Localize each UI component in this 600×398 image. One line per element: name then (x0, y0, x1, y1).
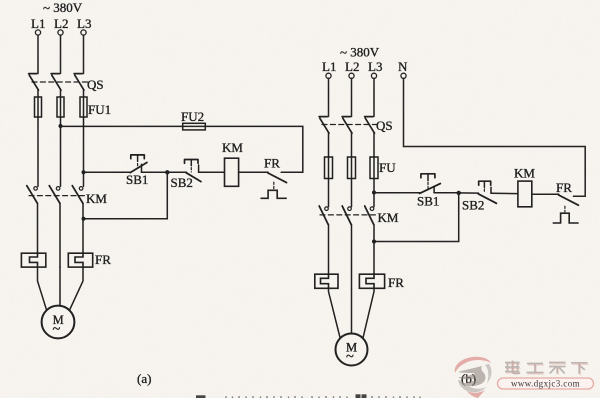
pushbutton SB1 start (b) (420, 174, 441, 194)
terminal L2 (b) (349, 73, 354, 78)
switch QS pole 2 (a) (51, 74, 61, 91)
wire L2 terminal to QS (b) (351, 78, 353, 116)
thermal relay FR heater pole 3 (b) (359, 274, 384, 288)
fuse FU pole 2 (b) (348, 157, 356, 179)
node SB1-SB2 junction (a) (165, 170, 169, 174)
pushbutton SB2 stop (b) (478, 181, 496, 203)
wire L2 terminal to QS (a) (60, 35, 62, 73)
wire KM contact to FR heater pole 1 (a) (37, 203, 39, 253)
thermal relay FR contact (a) (261, 172, 303, 198)
thermal relay FR heater pole 1 (a) (21, 253, 45, 267)
terminal L3 (a) (81, 30, 86, 35)
wire self-lock branch (b) (374, 193, 459, 242)
QS linkage dashed line (a) (32, 81, 88, 83)
node control tap on L3 (a) (82, 170, 86, 174)
wire FR heater to motor pole 1 (b) (329, 288, 341, 338)
fuse FU1 pole 3 (a) (80, 97, 87, 117)
wire KM contact to FR heater pole 2 (a) (59, 203, 61, 267)
wire QS to FU pole 3 (b) (373, 133, 375, 157)
node control tap on L2 (a) (59, 124, 63, 128)
wire L3 tap to SB1 (b) (374, 192, 420, 194)
wire FR heater to motor pole 2 (b) (351, 288, 353, 333)
contactor KM main contact pole 3 (b) (365, 206, 374, 225)
wire KM coil to FR contact (b) (532, 193, 559, 195)
contactor coil KM (b) (518, 181, 532, 207)
wire KM contact to FR heater pole 2 (b) (351, 225, 353, 289)
pushbutton SB2 stop (a) (185, 160, 202, 182)
terminal L2 (a) (58, 30, 63, 35)
switch QS pole 1 (a) (29, 74, 39, 91)
fuse FU2 (a) (183, 123, 206, 130)
switch QS pole 3 (b) (365, 117, 375, 134)
contactor KM main contact pole 1 (b) (319, 206, 328, 225)
terminal L3 (b) (371, 73, 376, 78)
wire QS to FU pole 1 (b) (328, 133, 330, 157)
wire L2 FU1 to KM contact (a) (60, 117, 62, 186)
pushbutton SB1 start (a) (130, 155, 147, 173)
watermark logo swirl (455, 357, 492, 398)
wire L1 FU1 to KM contact (a) (37, 117, 39, 186)
fuse FU pole 1 (b) (325, 157, 333, 179)
wire FU2 to right corner (a) (205, 126, 302, 172)
QS linkage dashed line (b) (322, 124, 378, 126)
watermark text 电工天下 (505, 361, 588, 374)
contactor KM main contact pole 1 (a) (27, 186, 38, 204)
motor M (b) (336, 334, 368, 366)
motor M (a) (42, 306, 75, 339)
switch QS pole 1 (b) (319, 117, 329, 134)
contactor coil KM (a) (225, 158, 239, 186)
node self-lock on L3 (a) (82, 217, 86, 221)
KM linkage dashed line (a) (29, 195, 87, 197)
terminal L1 (a) (35, 30, 40, 35)
wire L3 terminal to QS (a) (83, 35, 85, 73)
wire QS to FU1 pole 2 (a) (60, 90, 62, 97)
wire SB2 to KM coil (b) (491, 192, 518, 194)
wire L3 FU to KM contact (b) (373, 179, 375, 207)
wire KM contact to FR heater pole 3 (b) (373, 225, 375, 275)
wire N terminal down and across (b) (404, 78, 586, 196)
contactor KM main contact pole 2 (a) (49, 186, 60, 204)
thermal relay FR heater pole 1 (b) (315, 274, 338, 288)
thermal relay FR heater pole 3 (a) (68, 253, 92, 267)
wire FR heater to motor pole 2 (a) (59, 267, 61, 306)
fuse FU1 pole 2 (a) (57, 97, 64, 117)
switch QS pole 2 (b) (342, 117, 352, 134)
fuse FU pole 3 (b) (370, 157, 378, 179)
wire FR heater to motor pole 1 (a) (38, 267, 47, 310)
wire KM contact to FR heater pole 3 (a) (82, 203, 84, 253)
wire L1 FU to KM contact (b) (328, 179, 330, 207)
wire SB2 to KM coil (a) (199, 171, 225, 173)
wire self-lock branch (a) (84, 172, 168, 218)
wire QS to FU1 pole 1 (a) (37, 90, 39, 97)
wire L1 terminal to QS (a) (37, 35, 39, 73)
caption fragment at bottom edge (clipped text tops) (196, 394, 367, 398)
wire KM coil to FR contact (a) (239, 171, 269, 173)
wire SB1 to node (b) (434, 192, 459, 194)
wire KM contact to FR heater pole 1 (b) (328, 225, 330, 275)
contactor KM main contact pole 2 (b) (342, 206, 351, 225)
node self-lock on L3 (b) (372, 240, 376, 244)
wire L3 FU1 to KM contact (a) (83, 117, 85, 186)
wire QS to FU1 pole 3 (a) (83, 90, 85, 97)
thermal relay FR contact (b) (553, 195, 585, 223)
wire SB1 to node (a) (142, 171, 168, 173)
wire control feed L2 to FU2 (a) (61, 125, 183, 127)
KM linkage dashed line (b) (320, 214, 377, 216)
wire FR heater to motor pole 3 (a) (70, 267, 84, 310)
terminal L1 (b) (326, 73, 331, 78)
wire L1 terminal to QS (b) (328, 78, 330, 116)
scan mottle overlay (0, 0, 1, 1)
node control tap on L3 (b) (372, 191, 376, 195)
switch QS pole 3 (a) (74, 74, 84, 91)
wire node to SB2 (a) (167, 171, 186, 173)
wire FR heater to motor pole 3 (b) (363, 288, 374, 338)
wire QS to FU pole 2 (b) (351, 133, 353, 157)
terminal N (b) (401, 73, 406, 78)
watermark url pill (498, 378, 594, 389)
wire node to SB2 (b) (459, 192, 479, 194)
fuse FU1 pole 1 (a) (35, 97, 42, 117)
node SB1-SB2 junction (b) (457, 191, 461, 195)
wire L2 FU to KM contact (b) (351, 179, 353, 207)
contactor KM main contact pole 3 (a) (72, 186, 83, 204)
wire L3 terminal to QS (b) (373, 78, 375, 116)
wire L3 tap to SB1 (a) (84, 171, 131, 173)
